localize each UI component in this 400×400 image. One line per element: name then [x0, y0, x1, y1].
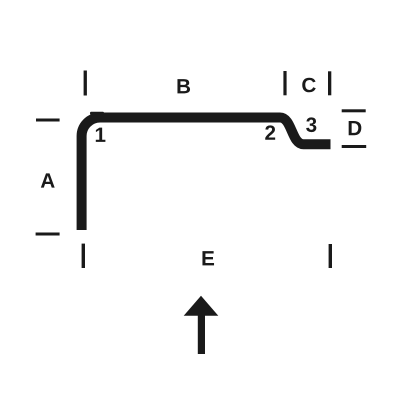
arrow E: up-pointing arrow — [184, 296, 219, 316]
label B — [177, 79, 190, 93]
tick: left upper horizontal — [36, 119, 60, 122]
tick: top-right right vertical (C right) — [328, 71, 331, 95]
label 2 — [265, 125, 275, 139]
tick: right upper horizontal (D top) — [342, 109, 366, 112]
tick: bottom-right vertical — [329, 244, 332, 268]
tick: right lower horizontal (D bottom) — [342, 145, 367, 148]
label A — [41, 173, 55, 187]
label E — [202, 251, 214, 265]
corner 1 outer-edge bump — [90, 112, 104, 115]
label 3 — [306, 117, 316, 132]
profile centerline: vertical leg A, bend 1, top flange B, joggle bends 2-3, lower flange — [82, 118, 331, 231]
tick: left lower horizontal — [36, 233, 60, 236]
label C — [302, 78, 315, 93]
tick: top-right left vertical (C left) — [283, 71, 286, 95]
tick: bottom-left vertical — [82, 244, 85, 268]
label 1 — [96, 128, 106, 142]
label D — [349, 121, 362, 135]
tick: top-left vertical — [84, 71, 87, 96]
